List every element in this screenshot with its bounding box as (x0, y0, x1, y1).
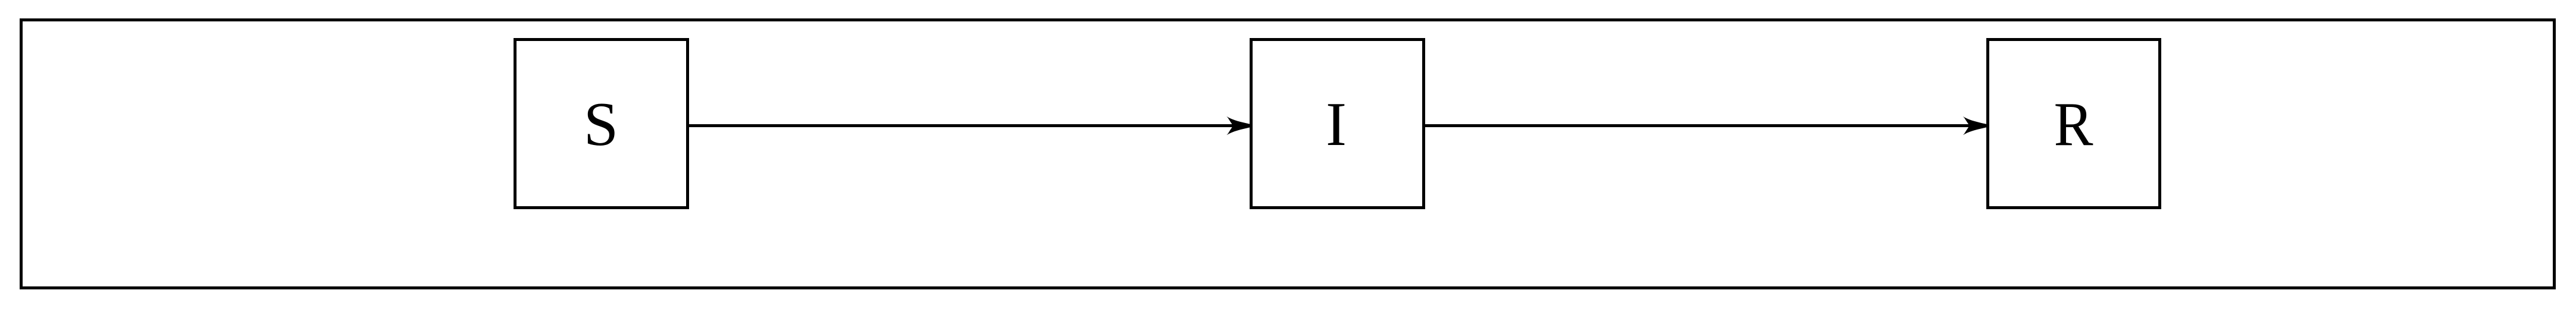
box I (1251, 40, 1424, 208)
wire I to R (1425, 124, 1973, 127)
wire S to I (689, 124, 1237, 127)
svg-text:S: S (584, 89, 618, 159)
arrowhead S to I (1226, 116, 1250, 135)
svg-text:I: I (1326, 89, 1347, 159)
svg-text:R: R (2054, 89, 2093, 159)
box R (1988, 40, 2160, 208)
arrowhead I to R (1963, 116, 1986, 135)
box S (515, 40, 688, 208)
